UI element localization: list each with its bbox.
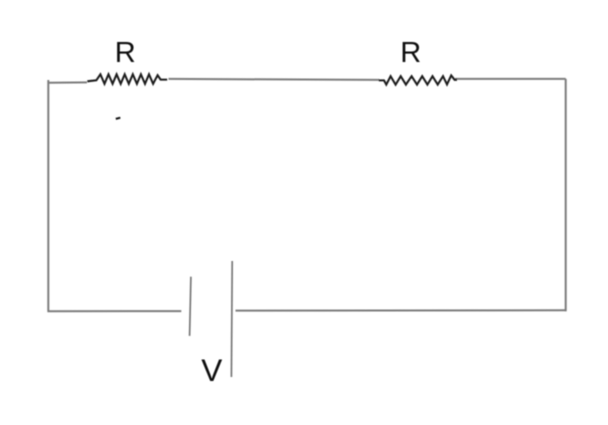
svg-text:V: V — [201, 352, 222, 388]
svg-text:R: R — [115, 37, 136, 69]
svg-text:R: R — [400, 37, 421, 69]
